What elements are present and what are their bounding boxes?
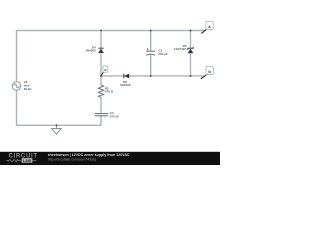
node a flag (top right) (201, 21, 213, 33)
junction mid-C3 (150, 75, 152, 77)
node c flag (101, 66, 108, 76)
wire node c to R2 (100, 76, 102, 85)
diode D4 (98, 48, 104, 53)
wire C3 branch bottom (150, 54, 152, 76)
label C4 (110, 111, 120, 119)
capacitor C4 (95, 114, 108, 116)
svg-text:c: c (104, 68, 106, 72)
junction mid-D5 (190, 75, 192, 77)
svg-text:LAB: LAB (23, 158, 32, 163)
wire D4 to node c (100, 53, 102, 76)
node b flag (middle right) (201, 66, 214, 79)
footer bar (0, 152, 220, 165)
label D6 (120, 80, 131, 87)
wire top rail (17, 30, 204, 32)
wire D4 branch top (100, 31, 102, 49)
label R2 (105, 87, 114, 94)
svg-text:1N4742A: 1N4742A (174, 47, 188, 51)
label V2 (24, 80, 32, 91)
junction top-D4 (100, 30, 102, 32)
resistor R2 (98, 85, 103, 98)
junction top-D5 (190, 30, 192, 32)
svg-text:http://circuitlab.com/cem742et: http://circuitlab.com/cem742etq (48, 157, 96, 161)
plus sign C3 (147, 48, 149, 50)
wire C4 to bottom rail (100, 116, 102, 126)
junction ground (56, 124, 58, 126)
wire middle rail (101, 75, 204, 77)
ground (52, 125, 62, 134)
svg-text:60 Hz: 60 Hz (24, 87, 32, 91)
svg-text:470 Ω: 470 Ω (105, 90, 114, 94)
label D4 (85, 46, 96, 53)
diode D5 (zener) (188, 47, 194, 54)
svg-text:470 nF: 470 nF (110, 115, 120, 119)
wire D5 branch bottom (190, 53, 192, 76)
svg-text:1N4005: 1N4005 (120, 83, 131, 87)
wire C3 branch top (150, 31, 152, 52)
wire R2 to C4 (100, 97, 102, 113)
logo LAB box (22, 158, 33, 163)
junction node c (100, 75, 102, 77)
svg-text:1N4005: 1N4005 (85, 49, 96, 53)
svg-text:220 µF: 220 µF (158, 52, 168, 56)
diode D6 (124, 74, 129, 79)
wire D5 branch top (190, 31, 192, 49)
logo resistor wire (6, 159, 20, 161)
label C3 (158, 49, 168, 57)
label D5 (174, 44, 188, 51)
capacitor C3 (polarized) (146, 51, 155, 55)
wire left vertical upper (16, 31, 18, 82)
source V2 (12, 82, 21, 91)
wire bottom rail (17, 124, 102, 126)
junction top-C3 (150, 30, 152, 32)
wire left vertical lower (16, 90, 18, 125)
